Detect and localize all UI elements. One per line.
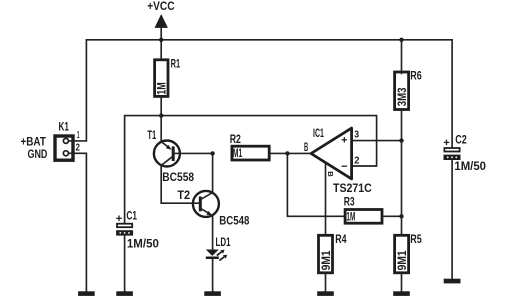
svg-text:B: B	[326, 171, 335, 177]
wire: LD1 cathode to ground	[212, 259, 214, 291]
ground under K1	[78, 291, 95, 296]
node: junction pin3 / R6 / R5 column	[399, 138, 403, 142]
wire: R4 bottom to ground	[325, 273, 327, 292]
svg-text:GND: GND	[28, 149, 48, 161]
positive plate	[117, 224, 132, 228]
LED LD1	[206, 237, 231, 261]
node: junction of rail with R6 column	[399, 38, 403, 42]
pin 2 contact	[63, 151, 68, 156]
svg-text:C1: C1	[126, 211, 137, 223]
svg-text:1M/50: 1M/50	[454, 161, 486, 173]
ground under C1	[116, 291, 133, 296]
capacitor C2	[444, 135, 487, 174]
polarity plus mark	[116, 217, 122, 219]
wire: node B down and across to R3 left	[287, 153, 343, 216]
wire: R2 right to op-amp output apex	[271, 152, 311, 154]
node: junction of rail with R1 column	[159, 38, 163, 42]
wire: T2 collector up to node	[212, 153, 214, 192]
wire: pin 3 non-inverting input to divider column	[352, 140, 402, 142]
wire: C1 bottom to ground	[124, 236, 126, 292]
svg-text:BC558: BC558	[162, 172, 194, 184]
base bar	[172, 146, 175, 161]
cathode bar	[206, 257, 219, 260]
svg-text:R6: R6	[410, 71, 422, 83]
negative plate	[444, 155, 461, 160]
wire: IC1 bias pin down to R4	[325, 162, 327, 234]
svg-text:2: 2	[76, 143, 81, 154]
svg-text:IC1: IC1	[313, 128, 324, 140]
wire: top rail corner down to C2 top plate	[451, 40, 453, 148]
positive plate	[444, 148, 459, 152]
wire: R5 bottom to ground	[401, 273, 403, 292]
svg-text:R1: R1	[171, 59, 181, 71]
node: junction R3 right / R5 column	[399, 214, 403, 218]
wire: R1 bottom to node A rail	[160, 97, 162, 116]
collector lead	[202, 193, 213, 199]
resistor R1	[155, 59, 181, 97]
resistor R2	[230, 134, 269, 160]
svg-text:+BAT: +BAT	[21, 137, 46, 149]
wire: K1 pin1 up to +VCC rail	[69, 40, 87, 141]
anode triangle	[206, 250, 219, 256]
wire: mid rail from C1 over to inverting-input riser	[125, 116, 377, 223]
svg-text:R2: R2	[230, 134, 241, 146]
wire: column from R6 bottom to R5 top	[401, 110, 403, 236]
svg-text:+VCC: +VCC	[147, 1, 174, 13]
transistor T2	[177, 190, 249, 228]
inverting minus mark	[342, 165, 348, 167]
emission arrow 1	[217, 252, 222, 256]
resistor R5	[395, 234, 423, 273]
svg-text:LD1: LD1	[216, 237, 231, 249]
svg-text:B: B	[304, 142, 308, 154]
svg-text:3: 3	[354, 129, 359, 140]
non-inverting plus mark	[342, 139, 348, 141]
collector lead	[161, 157, 172, 165]
wire: T1 base to node	[175, 152, 213, 154]
transistor T1	[147, 130, 194, 184]
wire: T2 emitter down to LD1	[212, 215, 214, 249]
node: junction of mid rail with R1 / T1 emitter	[159, 113, 163, 117]
capacitor C1	[116, 211, 159, 251]
pin 1 contact	[63, 138, 68, 143]
wire: K1 pin2 down to ground	[69, 153, 87, 291]
connector K1	[21, 122, 81, 161]
wire: top +VCC rail	[86, 39, 452, 41]
power symbol +VCC	[147, 1, 174, 28]
resistor R6	[395, 71, 422, 110]
wire: T1 emitter up to mid-rail node	[160, 116, 162, 142]
svg-text:M1: M1	[233, 148, 243, 160]
ground under C2	[444, 279, 461, 284]
emission arrow 2	[219, 257, 224, 261]
svg-text:9M1: 9M1	[397, 250, 409, 271]
base bar	[199, 197, 202, 212]
svg-text:1M/50: 1M/50	[127, 238, 159, 250]
wire: R6 top to +VCC rail	[401, 40, 403, 74]
op-amp IC1	[311, 128, 372, 195]
wire: R3 right to column	[383, 215, 401, 217]
svg-text:T1: T1	[147, 130, 156, 142]
node: junction T1 base / R2 / T2 collector	[210, 151, 214, 155]
emitter with PNP arrow	[161, 142, 167, 147]
resistor R3	[344, 197, 382, 224]
wire: +VCC stem down to rail and R1 top	[160, 27, 162, 58]
svg-text:TS271C: TS271C	[333, 183, 372, 195]
ground under R4	[317, 291, 334, 296]
polarity plus mark	[444, 141, 450, 143]
svg-text:R3: R3	[344, 197, 355, 209]
svg-text:1: 1	[77, 130, 80, 141]
svg-text:9M1: 9M1	[321, 250, 333, 271]
negative plate	[116, 230, 133, 235]
resistor R4	[319, 234, 348, 273]
svg-text:C2: C2	[455, 135, 467, 147]
node B junction	[285, 151, 289, 155]
svg-text:1M: 1M	[346, 211, 355, 223]
ground under LD1	[204, 291, 221, 296]
ground under R5	[393, 291, 410, 296]
svg-text:3M3: 3M3	[397, 88, 409, 107]
svg-text:BC548: BC548	[219, 216, 250, 228]
wire: T1 collector down and across to T2 base	[161, 165, 199, 203]
svg-text:R5: R5	[410, 234, 422, 246]
wire: C2 bottom to ground	[451, 160, 453, 279]
svg-text:1M: 1M	[157, 82, 169, 95]
emitter with NPN arrow	[202, 209, 208, 213]
svg-text:2: 2	[354, 156, 360, 167]
svg-text:T2: T2	[177, 190, 190, 202]
svg-text:R4: R4	[335, 234, 347, 246]
svg-text:K1: K1	[59, 122, 70, 134]
